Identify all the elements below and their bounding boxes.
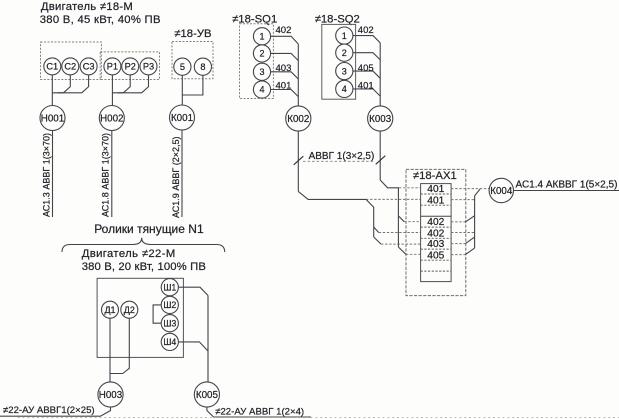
terminal P2 bbox=[122, 58, 139, 75]
motor 18 terminal group box P (dashed) bbox=[100, 52, 159, 80]
svg-text:К003: К003 bbox=[369, 114, 392, 125]
svg-text:≠18-SQ2: ≠18-SQ2 bbox=[315, 14, 360, 26]
SQ2 wire 2 bbox=[353, 53, 380, 60]
SQ1 contact 1 bbox=[253, 28, 270, 45]
svg-text:1: 1 bbox=[259, 32, 264, 42]
svg-text:С1: С1 bbox=[46, 62, 58, 72]
wire below K001 bbox=[181, 130, 183, 217]
svg-text:≠22-АУ АВВГ 1(2×4): ≠22-АУ АВВГ 1(2×4) bbox=[215, 407, 304, 418]
svg-text:401: 401 bbox=[427, 195, 444, 206]
motor 18 terminal group box C (dashed) bbox=[41, 42, 102, 80]
svg-text:401: 401 bbox=[276, 80, 292, 91]
wire 8 merge bbox=[182, 75, 203, 95]
terminal D2 bbox=[121, 301, 138, 318]
svg-text:АС1.8 АВВГ 1(3×70): АС1.8 АВВГ 1(3×70) bbox=[101, 133, 111, 217]
wire P2 merge bbox=[112, 75, 130, 93]
svg-text:5: 5 bbox=[180, 62, 185, 72]
svg-text:402: 402 bbox=[276, 25, 292, 36]
terminal Sh4 bbox=[161, 333, 178, 350]
svg-text:Д2: Д2 bbox=[124, 305, 135, 315]
terminal Sh1 bbox=[161, 279, 178, 296]
svg-text:Н003: Н003 bbox=[99, 390, 123, 401]
cable mark slash on K002 line bbox=[294, 156, 304, 165]
svg-text:Двигатель ≠18-М: Двигатель ≠18-М bbox=[41, 1, 133, 13]
svg-text:АС1.3 АВВГ 1(3×70): АС1.3 АВВГ 1(3×70) bbox=[41, 133, 51, 217]
SQ2 wire 1 (402) bbox=[353, 36, 380, 43]
svg-text:≠22-АУ АВВГ1(2×25): ≠22-АУ АВВГ1(2×25) bbox=[3, 405, 95, 416]
K002 cable elbow to AX1 bbox=[298, 191, 366, 199]
motor 22 box bbox=[97, 278, 183, 357]
svg-text:Ш3: Ш3 bbox=[163, 318, 176, 328]
SQ2 wire 4 (401) bbox=[353, 89, 380, 96]
svg-text:401: 401 bbox=[358, 80, 374, 91]
cable circle K002 bbox=[286, 106, 311, 131]
SQ1 trunk down to K002 bbox=[297, 44, 299, 106]
SQ2 contact 1 bbox=[336, 27, 353, 44]
svg-text:≠18-АХ1: ≠18-АХ1 bbox=[413, 170, 457, 182]
wire P3 merge bbox=[118, 75, 149, 93]
K002 cable down bbox=[297, 131, 299, 191]
AX1 403 right wire bbox=[451, 243, 465, 245]
H003 tail and bottom-left cable line bbox=[0, 407, 111, 416]
trunk down to K005 bbox=[207, 296, 209, 383]
terminal D1 bbox=[102, 301, 119, 318]
UV terminal 5 bbox=[174, 58, 191, 75]
svg-text:Р3: Р3 bbox=[143, 62, 154, 72]
svg-text:АВВГ 1(3×2,5): АВВГ 1(3×2,5) bbox=[309, 151, 375, 162]
#18-SQ1 box (dashed) bbox=[240, 24, 274, 99]
svg-text:Р2: Р2 bbox=[125, 62, 136, 72]
K003 cable down bbox=[379, 131, 381, 180]
K003 branch to row 405 bbox=[398, 247, 406, 254]
AX1 402-2 right wire bbox=[451, 232, 475, 234]
wire C2 merge bbox=[52, 75, 70, 93]
faint scan edge dotted line bbox=[18, 417, 619, 419]
svg-text:Р1: Р1 bbox=[107, 62, 118, 72]
SQ1 wire 3 (403) bbox=[271, 72, 299, 79]
AX1 402-1 right wire bbox=[451, 221, 465, 223]
K002 branch to row 402-2 bbox=[374, 227, 379, 233]
svg-text:403: 403 bbox=[427, 239, 444, 250]
K005 tail and bottom-right cable line bbox=[207, 407, 311, 417]
terminal P1 bbox=[104, 58, 121, 75]
svg-text:С2: С2 bbox=[64, 62, 76, 72]
#18-UV box (dashed) bbox=[172, 42, 213, 79]
svg-text:405: 405 bbox=[427, 250, 444, 261]
AX1 terminal column outline bbox=[421, 184, 452, 282]
brace over motor 22 bbox=[62, 238, 225, 252]
jumper Sh2-Sh3 bbox=[153, 305, 161, 323]
svg-text:380 В, 20 кВт, 100% ПВ: 380 В, 20 кВт, 100% ПВ bbox=[82, 261, 206, 273]
svg-text:402: 402 bbox=[427, 228, 444, 239]
svg-text:К001: К001 bbox=[171, 113, 193, 124]
terminal P3 bbox=[140, 58, 157, 75]
K003 trunk down bbox=[397, 188, 399, 247]
K004 cable to right edge bbox=[514, 190, 619, 192]
terminal C1 bbox=[44, 58, 61, 75]
AX1 row separators bbox=[421, 194, 452, 271]
SQ1 wire 2 bbox=[271, 53, 299, 60]
K002 branch to row 401-2 (dashed) bbox=[366, 198, 421, 200]
K003 cable elbow to AX1 row 401-1 bbox=[380, 180, 399, 188]
svg-text:Н001: Н001 bbox=[41, 113, 64, 124]
svg-text:Ш1: Ш1 bbox=[163, 282, 176, 292]
svg-text:Д1: Д1 bbox=[104, 305, 115, 315]
AX1 row1 wire to K004 (dashed) bbox=[451, 188, 489, 190]
svg-text:К004: К004 bbox=[490, 186, 513, 197]
terminal C3 bbox=[80, 58, 97, 75]
SQ2 wire 3 (405) bbox=[353, 71, 380, 78]
wire C3 merge bbox=[58, 75, 89, 93]
SQ2 contact 4 bbox=[336, 80, 353, 97]
cable circle H002 bbox=[99, 106, 124, 131]
leader line between slashes (dashed) bbox=[303, 160, 375, 162]
svg-text:2: 2 bbox=[259, 49, 264, 59]
AX1 right trunk bbox=[475, 189, 481, 248]
wire Sh1 to trunk bbox=[178, 287, 208, 295]
wire D1 down to H003 bbox=[109, 318, 111, 382]
SQ1 contact 2 bbox=[253, 45, 270, 62]
#18-SQ2 box bbox=[322, 24, 356, 99]
SQ2 trunk down to K003 bbox=[379, 43, 381, 106]
svg-text:3: 3 bbox=[259, 67, 264, 77]
AX1 405 right wire bbox=[451, 254, 465, 256]
SQ1 contact 3 bbox=[253, 63, 270, 80]
cable circle H001 bbox=[40, 106, 65, 131]
svg-text:АС1.9 АВВГ (2×2,5): АС1.9 АВВГ (2×2,5) bbox=[171, 137, 181, 218]
wire Sh4 to trunk bbox=[178, 342, 208, 351]
cable circle H003 bbox=[98, 382, 123, 407]
svg-text:Н002: Н002 bbox=[100, 113, 123, 124]
svg-text:380 В, 45 кВт, 40% ПВ: 380 В, 45 кВт, 40% ПВ bbox=[40, 14, 161, 26]
svg-text:2: 2 bbox=[342, 48, 347, 58]
#18-AX1 outer box (dashed) bbox=[406, 169, 466, 295]
svg-text:4: 4 bbox=[259, 85, 264, 95]
wire below H001 bbox=[52, 131, 54, 218]
svg-text:Ш2: Ш2 bbox=[163, 300, 176, 310]
terminal Sh3 bbox=[161, 315, 178, 332]
wire C1 down to H001 bbox=[51, 75, 53, 106]
UV terminal 8 bbox=[194, 58, 211, 75]
terminal Sh2 bbox=[161, 296, 178, 313]
wire D2 merge bbox=[110, 318, 129, 373]
SQ2 contact 2 bbox=[336, 44, 353, 61]
svg-text:1: 1 bbox=[342, 31, 347, 41]
svg-text:К005: К005 bbox=[196, 390, 219, 401]
svg-text:405: 405 bbox=[358, 63, 374, 74]
SQ1 wire 1 (402) bbox=[271, 36, 299, 44]
cable circle K004 bbox=[489, 178, 513, 202]
SQ1 wire 4 (401) bbox=[271, 90, 299, 97]
cable circle K003 bbox=[368, 106, 393, 131]
svg-text:8: 8 bbox=[200, 62, 205, 72]
svg-text:402: 402 bbox=[427, 217, 444, 228]
svg-text:АС1.4 АКВВГ 1(5×2,5): АС1.4 АКВВГ 1(5×2,5) bbox=[516, 179, 618, 190]
cable mark slash on K003 line bbox=[376, 156, 386, 165]
svg-text:403: 403 bbox=[276, 63, 292, 74]
svg-text:4: 4 bbox=[342, 84, 347, 94]
SQ2 contact 3 bbox=[336, 63, 353, 80]
svg-text:Двигатель ≠22-М: Двигатель ≠22-М bbox=[82, 248, 176, 260]
svg-text:К002: К002 bbox=[287, 114, 309, 125]
wire P1 down to H002 bbox=[111, 75, 113, 106]
svg-text:Ролики тянущие N1: Ролики тянущие N1 bbox=[94, 222, 204, 236]
svg-text:3: 3 bbox=[342, 66, 347, 76]
svg-text:С3: С3 bbox=[83, 62, 95, 72]
cable circle K001 bbox=[170, 105, 195, 130]
AX1 row2 right wire bbox=[451, 199, 475, 201]
svg-text:402: 402 bbox=[358, 25, 374, 36]
wire below H002 bbox=[111, 131, 113, 218]
svg-text:401: 401 bbox=[427, 184, 444, 195]
cable circle K005 bbox=[194, 382, 219, 407]
wire 5 down to K001 bbox=[181, 75, 183, 105]
K003 branch to row 402-1 bbox=[398, 216, 404, 222]
K002 branch to row 403 bbox=[374, 237, 381, 244]
svg-text:Ш4: Ш4 bbox=[163, 337, 176, 347]
svg-text:≠18-УВ: ≠18-УВ bbox=[174, 28, 211, 40]
SQ1 contact 4 bbox=[253, 81, 270, 98]
K002 trunk down bbox=[366, 199, 374, 237]
terminal C2 bbox=[62, 58, 79, 75]
